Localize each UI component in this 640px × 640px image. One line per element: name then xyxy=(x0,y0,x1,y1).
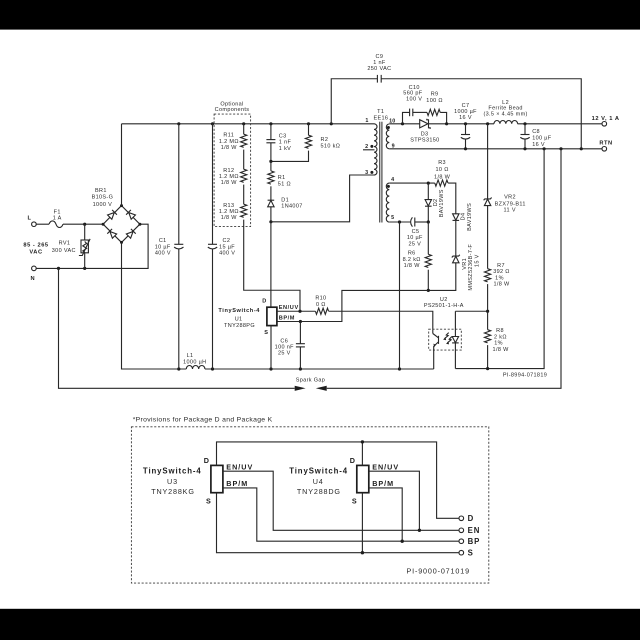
svg-text:U2: U2 xyxy=(440,297,448,303)
svg-text:TNY288KG: TNY288KG xyxy=(151,487,195,496)
svg-text:100 µF: 100 µF xyxy=(532,136,552,142)
svg-text:Components: Components xyxy=(215,107,250,113)
svg-text:400 V: 400 V xyxy=(219,251,235,257)
svg-text:1/8 W: 1/8 W xyxy=(221,145,238,151)
resistor R11 xyxy=(219,133,247,151)
node C6 bottom xyxy=(299,367,302,370)
spark gap arrows xyxy=(295,377,327,391)
svg-text:100 Ω: 100 Ω xyxy=(426,98,443,104)
svg-text:250 VAC: 250 VAC xyxy=(367,66,391,72)
terminal RTN xyxy=(599,140,612,151)
svg-text:1/8 W: 1/8 W xyxy=(221,180,238,186)
node spark gap drop xyxy=(559,147,562,150)
svg-text:R3: R3 xyxy=(438,160,446,166)
node C7 bottom xyxy=(464,147,467,150)
node R8 bottom xyxy=(486,367,489,370)
wire drain node to T1 pin 3 xyxy=(271,175,374,222)
svg-text:1.2 MΩ: 1.2 MΩ xyxy=(219,139,239,145)
svg-text:4: 4 xyxy=(391,177,394,183)
svg-text:S: S xyxy=(206,497,212,506)
svg-text:1 A: 1 A xyxy=(53,215,62,221)
svg-text:BP/M: BP/M xyxy=(226,479,248,488)
svg-text:L1: L1 xyxy=(187,353,194,359)
capacitor C6 xyxy=(275,322,305,370)
bottom letterbox bar xyxy=(0,609,640,640)
diode D4 xyxy=(453,203,474,256)
zener VR2 xyxy=(484,124,526,269)
svg-text:N: N xyxy=(30,276,35,282)
svg-text:TinySwitch-4: TinySwitch-4 xyxy=(143,467,202,476)
node RV1 bottom junction xyxy=(83,267,86,270)
node R11 top xyxy=(242,122,245,125)
terminal S xyxy=(459,549,474,558)
node bias winding return xyxy=(398,367,401,370)
resistor R7 xyxy=(485,263,511,311)
wire R12 to R13 xyxy=(243,185,245,205)
svg-text:16 V: 16 V xyxy=(532,142,545,148)
svg-text:C3: C3 xyxy=(279,134,287,140)
wire bridge bottom to return xyxy=(122,242,187,369)
optocoupler U2 xyxy=(424,297,464,369)
svg-text:2 kΩ: 2 kΩ xyxy=(494,334,507,340)
svg-text:L: L xyxy=(27,216,31,222)
svg-text:C2: C2 xyxy=(223,238,231,244)
svg-text:C1: C1 xyxy=(159,238,167,244)
svg-text:R11: R11 xyxy=(223,133,234,139)
svg-text:TinySwitch-4: TinySwitch-4 xyxy=(218,308,260,314)
svg-text:1.2 MΩ: 1.2 MΩ xyxy=(219,174,239,180)
node D2/C5/R6 junction xyxy=(427,220,430,223)
wire pin5 to return xyxy=(399,222,401,369)
svg-text:TinySwitch-4: TinySwitch-4 xyxy=(289,467,348,476)
svg-text:R7: R7 xyxy=(497,263,505,269)
svg-text:C5: C5 xyxy=(412,229,420,235)
svg-text:(3.5 × 4.45 mm): (3.5 × 4.45 mm) xyxy=(483,112,527,118)
optional components dashed box xyxy=(214,101,251,226)
diode D3 schottky xyxy=(410,119,439,144)
svg-text:25 V: 25 V xyxy=(408,241,421,247)
svg-text:15 V: 15 V xyxy=(475,254,481,267)
svg-text:11 V: 11 V xyxy=(504,208,516,214)
resistor R10 xyxy=(315,296,328,315)
svg-text:EN/UV: EN/UV xyxy=(226,462,253,471)
svg-text:EN/UV: EN/UV xyxy=(279,305,299,311)
svg-text:R13: R13 xyxy=(223,203,234,209)
svg-text:MMSZ5236B-7-F: MMSZ5236B-7-F xyxy=(468,244,474,291)
svg-text:EN/UV: EN/UV xyxy=(372,462,399,471)
node pin10/snubber xyxy=(401,122,404,125)
wire L to fuse xyxy=(36,223,49,225)
node C2 top xyxy=(211,122,214,125)
resistor R1 xyxy=(268,161,291,187)
svg-text:510 kΩ: 510 kΩ xyxy=(321,144,341,150)
svg-text:1000 V: 1000 V xyxy=(93,202,113,208)
terminal BP xyxy=(459,537,480,546)
bridge rectifier BR1 xyxy=(92,188,142,244)
node U4 source xyxy=(361,551,364,554)
svg-text:C6: C6 xyxy=(280,338,288,344)
svg-text:D3: D3 xyxy=(421,131,429,137)
fuse F1 xyxy=(49,209,63,227)
node VR2 top xyxy=(486,122,489,125)
svg-text:BAV19WS: BAV19WS xyxy=(439,189,445,217)
svg-text:TNY288DG: TNY288DG xyxy=(297,487,341,496)
node EN/UV sense junction xyxy=(298,310,301,313)
svg-text:12 V, 1 A: 12 V, 1 A xyxy=(592,116,620,122)
wire L2 to 12V terminal xyxy=(518,123,602,125)
wire D net xyxy=(217,442,459,518)
node C3 top xyxy=(269,122,272,125)
svg-text:BP/M: BP/M xyxy=(372,479,394,488)
terminal L xyxy=(27,216,36,227)
svg-text:25 V: 25 V xyxy=(278,351,291,357)
svg-text:1/8 W: 1/8 W xyxy=(434,174,451,180)
svg-text:51 Ω: 51 Ω xyxy=(278,181,291,187)
wire line-sense to EN/UV xyxy=(244,220,300,312)
svg-text:1 kV: 1 kV xyxy=(279,146,291,152)
svg-text:0 Ω: 0 Ω xyxy=(316,302,326,308)
svg-text:PI-8994-071819: PI-8994-071819 xyxy=(503,372,547,378)
svg-text:BAV19WS: BAV19WS xyxy=(467,203,473,231)
svg-text:100 nF: 100 nF xyxy=(275,345,295,351)
label 85-265 VAC xyxy=(23,242,48,255)
wire rail to R11 xyxy=(243,124,245,134)
varistor RV1 xyxy=(52,224,90,268)
svg-text:PS2501-1-H-A: PS2501-1-H-A xyxy=(424,303,464,309)
svg-text:D: D xyxy=(468,514,475,523)
svg-text:RTN: RTN xyxy=(599,140,612,146)
wire S net xyxy=(217,493,459,553)
svg-text:1N4007: 1N4007 xyxy=(281,204,302,210)
node R6/VR1 junction xyxy=(427,289,430,292)
node drain clamp junction xyxy=(269,220,272,223)
terminal N xyxy=(30,266,36,282)
capacitor C10 + resistor R9 snubber xyxy=(403,85,447,124)
wire LED anode to feedback node xyxy=(455,310,487,312)
node clamp C3/R1 xyxy=(269,160,272,163)
svg-text:D4: D4 xyxy=(461,213,467,221)
node spark drop junction xyxy=(57,267,60,270)
node C1 bottom xyxy=(177,367,180,370)
node C9 left xyxy=(330,122,333,125)
svg-text:2: 2 xyxy=(365,144,368,150)
svg-text:16 V: 16 V xyxy=(459,115,472,121)
svg-text:D: D xyxy=(204,456,210,465)
svg-text:B10S-G: B10S-G xyxy=(92,195,114,201)
svg-text:D: D xyxy=(350,456,356,465)
top letterbox bar xyxy=(0,0,640,30)
resistor R3 xyxy=(434,160,451,186)
wire T1 pin 5 xyxy=(389,221,410,223)
svg-text:1000 µH: 1000 µH xyxy=(183,359,206,365)
wire LED cathode return to RTN xyxy=(455,149,544,369)
svg-text:D1: D1 xyxy=(281,198,289,204)
svg-text:5: 5 xyxy=(391,215,394,221)
wire N line xyxy=(36,224,148,268)
terminal EN xyxy=(459,526,480,535)
svg-text:10 µF: 10 µF xyxy=(155,245,171,251)
inductor L1 xyxy=(183,353,206,369)
svg-text:*Provisions for Package D and: *Provisions for Package D and Package K xyxy=(133,416,273,423)
svg-text:Spark Gap: Spark Gap xyxy=(296,377,325,383)
svg-text:VAC: VAC xyxy=(29,249,42,255)
IC U1 TinySwitch-4 xyxy=(218,299,298,336)
resistor R8 xyxy=(485,311,510,368)
wire R11 to R12 xyxy=(243,150,245,170)
svg-text:400 V: 400 V xyxy=(155,251,171,257)
node opto return drop xyxy=(543,147,546,150)
IC U3 TinySwitch-4 xyxy=(143,456,253,505)
svg-text:1.2 MΩ: 1.2 MΩ xyxy=(219,209,239,215)
svg-text:BP/M: BP/M xyxy=(279,315,295,321)
svg-text:1%: 1% xyxy=(495,275,504,281)
svg-text:U1: U1 xyxy=(235,317,243,323)
transformer T1 xyxy=(363,109,396,222)
wire T1 pin 10 to D3 xyxy=(389,123,419,125)
svg-text:1%: 1% xyxy=(494,341,503,347)
svg-text:1/8 W: 1/8 W xyxy=(404,263,421,269)
svg-text:STPS3150: STPS3150 xyxy=(410,138,439,144)
svg-text:U4: U4 xyxy=(313,477,324,486)
wire R10 to opto collector xyxy=(329,311,433,333)
svg-text:PI-9000-071019: PI-9000-071019 xyxy=(406,566,469,575)
wire fuse to bridge xyxy=(63,223,103,225)
node pin4/D2 junction xyxy=(427,182,430,185)
svg-text:R6: R6 xyxy=(408,250,416,256)
node BP/M junction xyxy=(299,320,302,323)
svg-text:15 µF: 15 µF xyxy=(219,245,235,251)
svg-text:392 Ω: 392 Ω xyxy=(493,269,510,275)
node EN junction xyxy=(418,529,421,532)
wire return line xyxy=(205,368,434,370)
wire EN/UV line xyxy=(277,310,315,312)
wire T1 pin 4 xyxy=(389,182,435,184)
wire U3 EN/UV net xyxy=(223,471,459,530)
svg-text:10 µF: 10 µF xyxy=(407,235,423,241)
wire U4 source xyxy=(361,493,363,553)
svg-text:85 - 265: 85 - 265 xyxy=(23,242,48,248)
svg-text:10 Ω: 10 Ω xyxy=(436,167,449,173)
svg-text:100 V: 100 V xyxy=(406,97,422,103)
node C2 bottom xyxy=(211,367,214,370)
svg-text:1/8 W: 1/8 W xyxy=(493,282,510,288)
svg-text:BP: BP xyxy=(468,537,481,546)
svg-text:8.2 kΩ: 8.2 kΩ xyxy=(403,257,421,263)
svg-text:C7: C7 xyxy=(462,103,470,109)
node pin5/C5 junction xyxy=(398,220,401,223)
node C7 top xyxy=(464,122,467,125)
capacitor C5 xyxy=(407,217,428,247)
terminal D xyxy=(459,514,474,523)
svg-text:F1: F1 xyxy=(54,209,61,215)
dashed box packages xyxy=(131,427,488,583)
wire bias to BP/M xyxy=(277,290,428,321)
wire spark gap left xyxy=(59,268,295,388)
resistor R6 xyxy=(403,222,432,290)
svg-text:R9: R9 xyxy=(431,92,439,98)
wire U4 drain xyxy=(361,442,363,466)
wire DC+ top rail xyxy=(122,123,375,125)
svg-text:EE16: EE16 xyxy=(373,115,388,121)
svg-text:TNY288PG: TNY288PG xyxy=(224,323,255,329)
resistor R2 xyxy=(271,124,340,162)
wire bridge top to DC+ rail xyxy=(121,124,123,206)
node C1 top xyxy=(177,122,180,125)
svg-text:R2: R2 xyxy=(321,137,329,143)
wire 12V output line xyxy=(429,123,495,125)
svg-text:S: S xyxy=(264,330,268,336)
wire drain node to U1 drain xyxy=(270,222,272,307)
svg-text:300 VAC: 300 VAC xyxy=(52,248,76,254)
svg-text:1/8 W: 1/8 W xyxy=(221,215,238,221)
capacitor C8 xyxy=(520,124,552,149)
wire U3 BP/M net xyxy=(223,488,459,541)
node RV1 top junction xyxy=(83,223,86,226)
svg-text:S: S xyxy=(352,497,358,506)
svg-text:VR2: VR2 xyxy=(504,195,516,201)
node feedback R7/R8/LED xyxy=(486,310,489,313)
node snubber right xyxy=(445,122,448,125)
node U4 drain xyxy=(361,440,364,443)
node BP junction xyxy=(401,540,404,543)
svg-text:VR1: VR1 xyxy=(462,258,468,270)
wire R3 to D4 xyxy=(448,183,456,214)
capacitor C1 xyxy=(155,124,184,369)
wire U4 BP/M xyxy=(369,488,402,541)
terminal 12V output xyxy=(592,116,620,126)
svg-text:1/8 W: 1/8 W xyxy=(493,347,510,353)
svg-text:RV1: RV1 xyxy=(59,240,71,246)
svg-text:BR1: BR1 xyxy=(95,188,107,194)
resistor R13 xyxy=(219,203,247,221)
node U1 source xyxy=(269,367,272,370)
capacitor C9 xyxy=(331,54,581,149)
svg-text:T1: T1 xyxy=(377,109,384,115)
svg-text:U3: U3 xyxy=(167,477,178,486)
diode D2 xyxy=(425,183,445,222)
wire U1 source xyxy=(270,326,272,369)
svg-text:R1: R1 xyxy=(278,175,286,181)
node C9 right xyxy=(580,147,583,150)
inductor L2 ferrite bead xyxy=(483,100,527,124)
node C8 top xyxy=(523,122,526,125)
svg-text:C8: C8 xyxy=(532,129,540,135)
svg-text:R8: R8 xyxy=(496,328,504,334)
svg-text:BZX79-B11: BZX79-B11 xyxy=(495,201,526,207)
svg-text:EN: EN xyxy=(468,526,481,535)
svg-text:1000 µF: 1000 µF xyxy=(454,109,477,115)
svg-text:1: 1 xyxy=(365,118,368,124)
svg-text:S: S xyxy=(468,549,474,558)
svg-text:3: 3 xyxy=(365,170,368,176)
IC U4 TinySwitch-4 xyxy=(289,456,399,505)
svg-text:D: D xyxy=(262,299,267,305)
zener VR1 xyxy=(428,244,480,291)
resistor R12 xyxy=(219,168,247,186)
diode D1 xyxy=(268,186,303,222)
svg-text:R10: R10 xyxy=(315,296,326,302)
capacitor C3 xyxy=(266,124,291,162)
capacitor C7 xyxy=(454,103,477,149)
svg-text:1 nF: 1 nF xyxy=(279,140,292,146)
svg-text:R12: R12 xyxy=(223,168,234,174)
node R2 top xyxy=(307,122,310,125)
wire spark gap right xyxy=(327,149,561,388)
wire U4 EN/UV xyxy=(369,471,420,530)
capacitor C2 xyxy=(208,124,235,369)
node C8 bottom xyxy=(523,147,526,150)
wire RTN line from T1 pin 9 xyxy=(389,148,602,150)
